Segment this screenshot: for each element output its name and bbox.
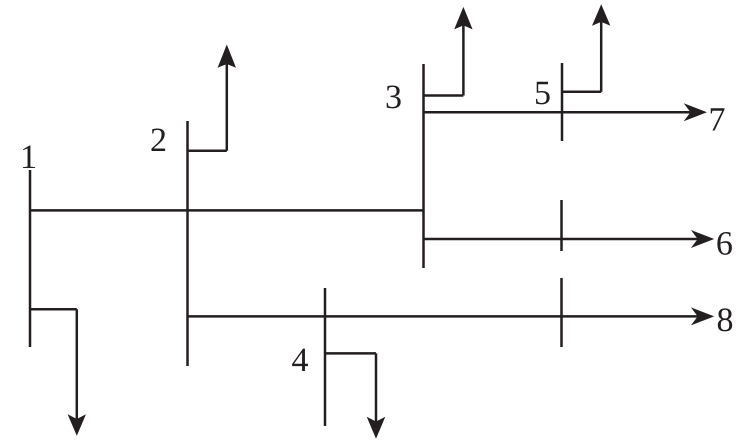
wire tick on line 6 [560,200,563,251]
node label 4 [292,349,308,371]
node label 7 [711,108,725,130]
arrowhead up generator bus 5 [592,4,610,26]
wire line to node 6 [424,238,699,241]
wire tick on line 8 [560,278,563,347]
node label 5 [536,82,550,105]
arrowhead right node 8 [691,307,714,325]
wire generator stub at bus 5 [562,22,601,92]
arrowhead up generator bus 3 [454,7,472,30]
bus 1 [29,170,32,347]
wire generator stub at bus 3 [424,26,464,96]
wire main feeder 1-2-3 [30,209,424,212]
arrowhead right node 6 [691,230,714,248]
wire generator stub at bus 2 [188,64,227,151]
bus 3 [422,64,425,268]
arrowhead down load bus 1 [68,414,86,435]
wire line to node 7 [424,111,692,114]
arrowhead down load bus 4 [367,417,386,439]
wire line to node 8 [188,315,699,318]
bus 5 [561,63,564,141]
arrowhead up generator bus 2 [218,45,236,68]
wire load stub at bus 1 [30,309,77,419]
node label 6 [717,232,732,255]
bus 4 [324,288,327,426]
node label 2 [151,128,165,151]
bus 2 [186,121,189,366]
wire load stub at bus 4 [325,353,376,422]
node label 1 [23,146,35,168]
node label 8 [718,308,732,331]
node label 3 [387,85,401,108]
arrowhead right node 7 [684,103,707,121]
